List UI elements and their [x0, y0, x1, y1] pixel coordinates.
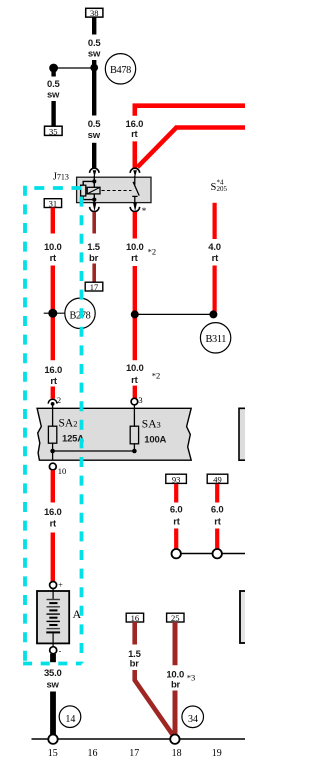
- svg-text:49: 49: [213, 474, 222, 484]
- svg-text:10.0: 10.0: [126, 242, 144, 253]
- svg-text:rt: rt: [214, 517, 221, 528]
- wire 1.5 br from relay: [92, 212, 96, 234]
- svg-text:10.0: 10.0: [44, 242, 62, 253]
- label 1.5 br: [87, 242, 101, 264]
- junction ring left: [172, 549, 181, 558]
- junction dot main: [90, 64, 98, 72]
- svg-text:rt: rt: [50, 376, 57, 387]
- node link line to B311: [135, 313, 214, 315]
- label 35.0 sw: [44, 668, 62, 690]
- wire 16.0 rt to battery: [51, 470, 55, 502]
- battery plus terminal: [50, 580, 64, 589]
- relay terminal bottom-right: pin and cup arc: [130, 203, 139, 212]
- svg-text:rt: rt: [212, 253, 219, 264]
- label 4.0 rt: [208, 242, 221, 264]
- wire 10.0 rt mid: [133, 266, 137, 360]
- label 10.0 rt: [44, 242, 62, 264]
- relay resistor: [81, 185, 86, 196]
- bus junction dot SA2: [50, 449, 55, 454]
- svg-text:25: 25: [171, 613, 180, 623]
- svg-text:0.5: 0.5: [47, 79, 61, 90]
- svg-text:1.5: 1.5: [87, 242, 101, 253]
- relay coil feed line: [93, 176, 95, 204]
- wire 10.0 br to node: [173, 691, 178, 736]
- relay control dashed link: [102, 190, 132, 192]
- svg-text:*3: *3: [187, 672, 196, 682]
- svg-text:17: 17: [129, 748, 139, 759]
- svg-text:18: 18: [172, 748, 182, 759]
- fuse SA2 element: [48, 405, 56, 460]
- label 16.0 rt lower: [44, 507, 62, 529]
- wire 10.0 rt from box 31: [51, 208, 55, 234]
- wire junction link to left branch: [54, 67, 95, 69]
- connector box 35: [45, 126, 63, 136]
- svg-text:16.0: 16.0: [44, 507, 62, 518]
- bus junction dot SA3: [132, 449, 137, 454]
- label 16.0 rt mid: [44, 365, 62, 387]
- svg-text:205: 205: [217, 185, 228, 193]
- svg-text:-: -: [59, 647, 62, 656]
- fuse SA3 element: [130, 405, 138, 451]
- relay coil parallel branch: [83, 181, 94, 199]
- svg-text:19: 19: [212, 748, 222, 759]
- svg-text:4.0: 4.0: [208, 242, 221, 253]
- junction dot col3: [131, 310, 139, 318]
- svg-text:6.0: 6.0: [211, 504, 224, 515]
- partial component box at right edge: [240, 591, 248, 643]
- svg-text:sw: sw: [88, 49, 101, 60]
- battery minus terminal: [50, 647, 62, 656]
- svg-text:100A: 100A: [144, 434, 166, 445]
- svg-text:B311: B311: [206, 334, 227, 345]
- wire 6.0 rt from 49: [215, 484, 219, 503]
- fuse designation S205: [211, 178, 228, 193]
- relay terminal top-right: dome arc and pin: [130, 168, 139, 177]
- svg-text:16: 16: [131, 613, 140, 623]
- svg-text:*2: *2: [148, 247, 157, 257]
- label 1.5 br lower: [128, 649, 142, 669]
- fuse SA2 terminal 2: [48, 395, 61, 406]
- wire 6.0 rt lower right: [215, 529, 219, 550]
- wire 16.0 rt battery segment: [51, 533, 55, 582]
- wire 6.0 rt from 93: [174, 484, 178, 503]
- wire 10.0 rt to node: [51, 266, 55, 361]
- svg-text:10: 10: [58, 466, 67, 476]
- svg-text:+: +: [58, 580, 63, 589]
- svg-text:rt: rt: [131, 375, 138, 386]
- svg-text:31: 31: [49, 199, 58, 209]
- fuse panel terminal 10: [49, 463, 66, 476]
- connector box 49: [207, 474, 228, 484]
- connector box 17: [85, 282, 103, 292]
- relay switch: [132, 176, 139, 204]
- wire 4.0 rt lower: [213, 266, 217, 315]
- wire 35.0 sw to ground rail: [50, 692, 56, 736]
- connector box 93: [166, 474, 187, 484]
- ground rail: [32, 738, 246, 740]
- relay coil: [87, 187, 100, 194]
- svg-text:J713: J713: [53, 172, 69, 183]
- wire 1.5 br to box 17: [92, 264, 96, 283]
- svg-text:34: 34: [188, 714, 198, 725]
- svg-text:10.0: 10.0: [126, 363, 144, 374]
- wire 4.0 rt from S205: [213, 203, 217, 239]
- relay coil node bottom: [92, 198, 96, 202]
- wire 10.0 rt *2 from relay: [133, 212, 137, 239]
- ground rail ring 18: [170, 735, 179, 744]
- svg-text:14: 14: [65, 714, 75, 725]
- connector box 16: [126, 613, 143, 623]
- wire 0.5 sw to relay terminal: [92, 143, 96, 168]
- label 10.0 rt *2 lower: [126, 363, 160, 386]
- svg-text:rt: rt: [131, 253, 138, 264]
- relay terminal bottom-left: pin and cup arc: [90, 203, 99, 212]
- wire stub below left dot: [51, 68, 55, 77]
- wire 1.5 br from 16: [132, 622, 137, 645]
- junction line at 553: [176, 553, 245, 555]
- red feed wire diagonal: [137, 128, 245, 168]
- node B278 tick: [44, 312, 66, 314]
- svg-text:*: *: [142, 206, 147, 216]
- svg-text:SA3: SA3: [142, 419, 161, 431]
- svg-text:br: br: [130, 659, 140, 670]
- svg-text:rt: rt: [50, 518, 57, 529]
- label 10.0 rt *2: [126, 242, 156, 264]
- junction dot left: [49, 64, 58, 73]
- ground node circle 34: [182, 706, 204, 728]
- connector box 25: [167, 613, 184, 623]
- cyan harness outline dashed box: [23, 186, 81, 664]
- svg-text:sw: sw: [46, 679, 59, 690]
- label 0.5 sw: [88, 38, 102, 60]
- junction dot col4: [209, 310, 217, 318]
- ground node circle 14: [59, 706, 81, 728]
- svg-text:3: 3: [138, 395, 142, 405]
- svg-text:6.0: 6.0: [170, 504, 183, 515]
- node B478: [105, 54, 135, 84]
- label 6.0 rt left: [170, 504, 183, 527]
- relay coil node top: [92, 179, 96, 183]
- svg-text:B478: B478: [110, 65, 131, 76]
- svg-text:35: 35: [49, 126, 58, 136]
- svg-text:16: 16: [88, 748, 98, 759]
- wire 35.0 sw stub: [50, 654, 56, 662]
- svg-text:sw: sw: [88, 130, 101, 141]
- svg-text:rt: rt: [50, 253, 57, 264]
- fuse panel body left piece: [37, 408, 191, 460]
- label 0.5 sw lower: [88, 119, 102, 141]
- wire 0.5 sw segment to junction and down: [92, 60, 96, 116]
- label 16.0 rt top: [126, 119, 144, 140]
- ground rail ring 15: [48, 735, 57, 744]
- label 0.5 sw left: [47, 79, 61, 101]
- svg-text:rt: rt: [131, 129, 138, 140]
- label 6.0 rt right: [211, 504, 224, 527]
- wire 1.5 br diagonal to node: [135, 670, 174, 736]
- connector box 38: [86, 8, 103, 18]
- svg-text:rt: rt: [173, 517, 180, 528]
- battery A body: [37, 591, 69, 643]
- node B278 dot: [48, 309, 57, 318]
- svg-text:0.5: 0.5: [88, 119, 102, 130]
- relay J713 body: [77, 177, 151, 202]
- svg-text:br: br: [89, 253, 99, 264]
- svg-text:sw: sw: [47, 89, 60, 100]
- svg-text:2: 2: [57, 395, 61, 405]
- battery cells: [46, 589, 60, 648]
- wire 0.5 sw segment from box 38: [92, 17, 96, 34]
- wire 10.0 rt to fuse panel: [133, 386, 137, 399]
- junction ring right: [213, 549, 222, 558]
- svg-text:0.5: 0.5: [88, 38, 102, 49]
- relay terminal top-left: dome arc and pin: [90, 168, 99, 177]
- node B311 circle: [200, 323, 230, 353]
- svg-text:SA2: SA2: [59, 418, 78, 430]
- svg-text:16.0: 16.0: [44, 365, 62, 376]
- fuse SA3 terminal 3: [131, 395, 143, 405]
- svg-text:17: 17: [90, 282, 99, 292]
- wire 10.0 br from 25: [173, 622, 178, 665]
- red feed wire 16.0 rt vertical to relay: [133, 108, 138, 168]
- node B278 circle: [65, 298, 95, 328]
- fuse panel body right piece: [239, 408, 246, 460]
- red feed wire 16.0 rt horizontal top: [133, 103, 246, 110]
- svg-text:br: br: [171, 679, 181, 690]
- fuse panel bus line: [53, 450, 135, 452]
- svg-text:38: 38: [90, 8, 99, 18]
- wire 0.5 sw to box 35: [51, 101, 55, 126]
- connector box 31: [44, 199, 61, 209]
- label 10.0 br *3: [166, 669, 195, 690]
- svg-text:*2: *2: [152, 370, 161, 380]
- wire 16.0 rt to fuse panel: [51, 387, 55, 399]
- svg-text:15: 15: [48, 748, 58, 759]
- svg-text:93: 93: [172, 474, 181, 484]
- wire 6.0 rt lower left: [174, 529, 178, 550]
- svg-text:35.0: 35.0: [44, 668, 62, 679]
